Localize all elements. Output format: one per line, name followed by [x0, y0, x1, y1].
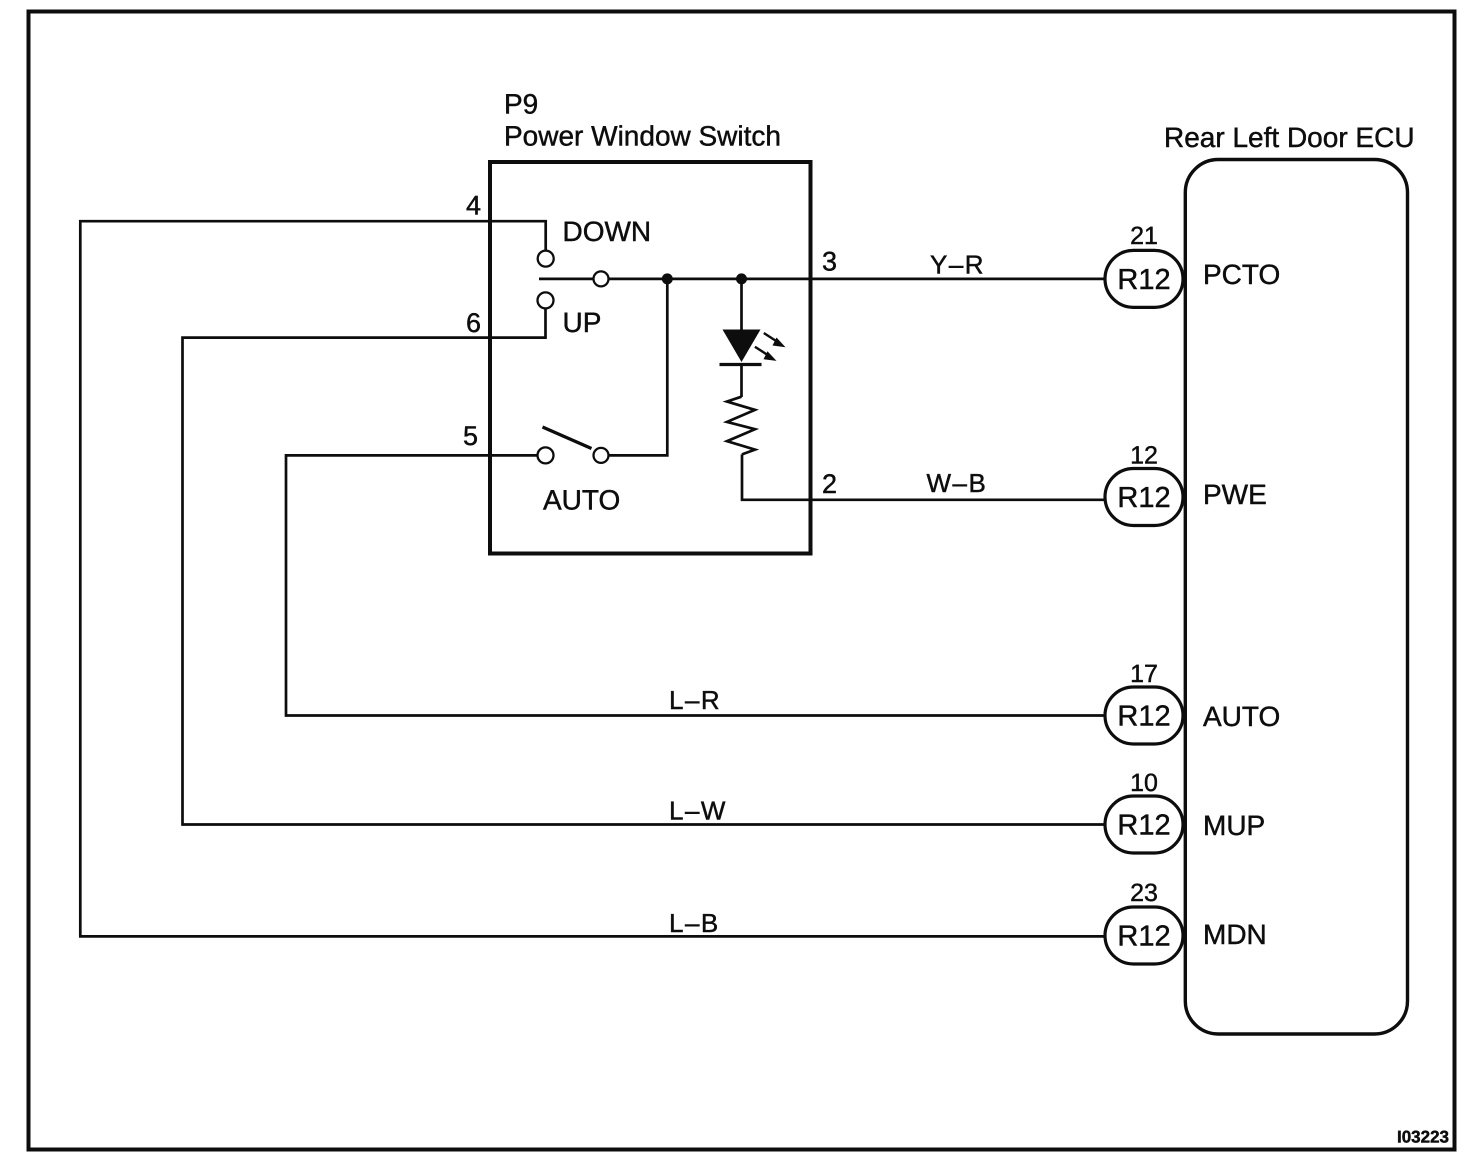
connector R12 pin 23 (MDN)	[1105, 907, 1183, 964]
svg-text:R12: R12	[1117, 482, 1170, 514]
svg-text:10: 10	[1130, 769, 1158, 797]
svg-text:DOWN: DOWN	[563, 216, 652, 247]
wire L-W: switch pin 6 to ECU pin 10	[183, 308, 1105, 824]
svg-text:L–B: L–B	[669, 908, 720, 938]
svg-text:L–W: L–W	[669, 796, 727, 826]
switch AUTO: right contact circle	[594, 448, 609, 463]
svg-text:3: 3	[822, 247, 837, 277]
junction node A	[662, 273, 673, 284]
Rear Left Door ECU box outline	[1185, 160, 1407, 1035]
svg-text:AUTO: AUTO	[543, 485, 620, 516]
svg-text:21: 21	[1130, 222, 1158, 250]
svg-text:R12: R12	[1117, 921, 1170, 953]
connector R12 pin 21 (PCTO)	[1105, 250, 1183, 307]
connector R12 pin 10 (MUP)	[1105, 796, 1183, 853]
svg-text:R12: R12	[1117, 810, 1170, 842]
svg-text:12: 12	[1130, 442, 1158, 470]
svg-text:W–B: W–B	[927, 468, 988, 498]
wire: DOWN/UP common bar	[539, 278, 594, 281]
wire: AUTO contact up to node A	[609, 279, 668, 456]
svg-text:UP: UP	[563, 307, 602, 338]
svg-text:AUTO: AUTO	[1203, 701, 1280, 732]
svg-text:PWE: PWE	[1203, 479, 1267, 510]
svg-text:P9: P9	[504, 89, 538, 120]
contact circle: UP fixed contact (pin 6)	[538, 292, 554, 308]
svg-text:I03223: I03223	[1397, 1128, 1449, 1147]
svg-text:R12: R12	[1117, 264, 1170, 296]
wire: node B down to LED anode	[740, 279, 743, 330]
LED indicator lamp	[720, 330, 786, 365]
contact circle: DOWN fixed contact (pin 4)	[538, 251, 554, 267]
svg-text:4: 4	[466, 191, 481, 221]
svg-text:Y–R: Y–R	[930, 250, 985, 280]
svg-text:2: 2	[822, 469, 837, 499]
svg-text:23: 23	[1130, 879, 1158, 907]
svg-text:5: 5	[463, 421, 478, 451]
svg-text:Power Window Switch: Power Window Switch	[504, 121, 781, 152]
resistor (LED series)	[727, 397, 755, 455]
svg-text:PCTO: PCTO	[1203, 259, 1280, 290]
junction node B	[736, 273, 747, 284]
switch P9 box outline	[490, 162, 811, 554]
svg-text:Rear Left Door ECU: Rear Left Door ECU	[1164, 122, 1415, 153]
wire W-B: resistor to ECU pin 12	[742, 454, 1104, 499]
wire L-R: switch pin 5 to ECU pin 17	[286, 455, 1104, 715]
svg-text:MDN: MDN	[1203, 919, 1267, 950]
wire L-B: switch pin 4 to ECU pin 23	[80, 221, 1104, 936]
connector R12 pin 12 (PWE)	[1105, 469, 1183, 526]
svg-text:6: 6	[466, 308, 481, 338]
connector R12 pin 17 (AUTO)	[1105, 687, 1183, 744]
svg-text:L–R: L–R	[669, 685, 721, 715]
svg-text:R12: R12	[1117, 701, 1170, 733]
svg-text:MUP: MUP	[1203, 810, 1265, 841]
switch AUTO: fixed contact circle (pin 5)	[538, 447, 554, 463]
wire Y-R: moving contact to ECU pin 21	[609, 278, 1105, 281]
wire: LED cathode to resistor	[740, 365, 743, 398]
svg-text:17: 17	[1130, 660, 1158, 688]
contact circle: UP/DOWN moving contact	[594, 271, 609, 286]
switch AUTO: blade	[543, 427, 592, 449]
